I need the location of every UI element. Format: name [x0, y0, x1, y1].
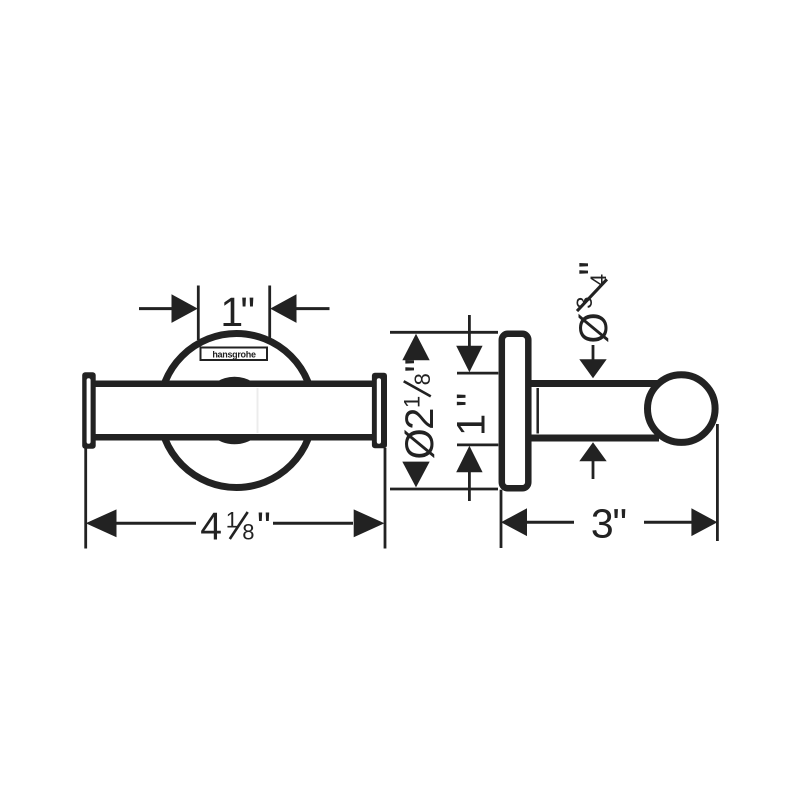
svg-text:8: 8 [242, 520, 254, 545]
svg-text:Ø: Ø [572, 312, 616, 343]
svg-text:Ø: Ø [398, 428, 442, 459]
svg-text:hansgrohe: hansgrohe [212, 350, 256, 360]
svg-text:2: 2 [398, 408, 442, 430]
svg-text:": " [241, 289, 256, 335]
svg-text:": " [450, 393, 494, 407]
svg-text:1: 1 [450, 414, 494, 436]
svg-text:1: 1 [400, 396, 425, 408]
svg-text:": " [257, 506, 271, 549]
svg-text:": " [398, 358, 442, 372]
svg-text:8: 8 [410, 373, 435, 385]
svg-text:1: 1 [226, 507, 238, 532]
svg-text:4: 4 [200, 506, 222, 549]
svg-text:": " [613, 501, 628, 547]
svg-text:3: 3 [591, 501, 614, 547]
svg-text:": " [572, 261, 616, 275]
